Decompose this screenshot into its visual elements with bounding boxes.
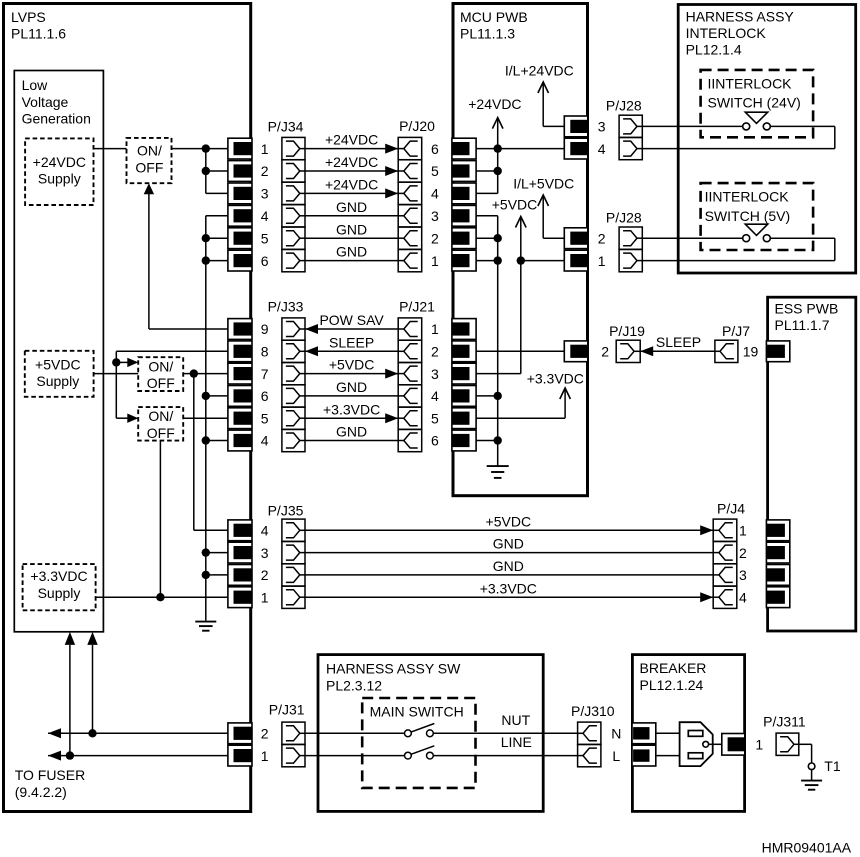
LVPS edge block P/J34 pin 3 xyxy=(228,183,252,204)
interlock switch 5V return loop to pin1 xyxy=(770,237,835,239)
svg-text:PL12.1.4: PL12.1.4 xyxy=(686,42,742,58)
ESS edge block P/J4 pin 3 xyxy=(766,565,789,586)
main switch contacts LINE xyxy=(405,752,412,759)
P/J20 connector cell pin 3 xyxy=(398,205,422,227)
LINE wire main switch to P/J310 xyxy=(433,755,577,757)
svg-text:GND: GND xyxy=(336,244,367,260)
P/J21 connector cell pin 4 xyxy=(398,385,422,407)
svg-text:ESS PWB: ESS PWB xyxy=(775,300,839,316)
svg-text:MCU PWB: MCU PWB xyxy=(460,9,528,25)
LVPS edge block P/J34 pin 4 xyxy=(228,205,252,226)
svg-text:1: 1 xyxy=(261,141,269,157)
T1 ground symbol xyxy=(801,780,822,782)
P/J7 connector cell pin 19 xyxy=(715,340,738,362)
svg-text:Low: Low xyxy=(22,77,49,93)
ESS PWB board box PL11.1.7 xyxy=(768,297,856,631)
svg-text:I/L+24VDC: I/L+24VDC xyxy=(505,62,574,78)
P/J33 connector cell pin 8 xyxy=(282,340,305,362)
wire breaker block N to plug xyxy=(656,732,680,734)
svg-text:6: 6 xyxy=(431,141,439,157)
svg-text:Supply: Supply xyxy=(38,171,81,187)
svg-text:TO FUSER: TO FUSER xyxy=(15,767,86,783)
+5VDC branch down to P/J35 pin4 xyxy=(193,374,195,531)
wire P/J311 to T1 xyxy=(799,743,812,745)
svg-text:4: 4 xyxy=(261,208,269,224)
P/J20 connector cell pin 1 xyxy=(398,250,422,272)
wire P/J33 to P/J21 row 1 (POW SAV) xyxy=(305,328,398,330)
svg-text:Generation: Generation xyxy=(22,111,91,127)
svg-text:1: 1 xyxy=(261,748,269,764)
vertical return to Low Voltage Generation (row 1) xyxy=(69,645,71,756)
svg-text:P/J31: P/J31 xyxy=(269,702,305,718)
svg-text:5: 5 xyxy=(261,230,269,246)
P/J28 (24V) connector cell pin 4 xyxy=(619,137,642,159)
svg-text:P/J21: P/J21 xyxy=(399,298,435,314)
LVPS edge block P/J34 pin 2 xyxy=(228,161,252,182)
svg-text:+5VDC: +5VDC xyxy=(492,197,538,213)
MCU edge block P/J19 pin 2 xyxy=(564,341,588,362)
LVPS edge block P/J33 pin 5 xyxy=(228,408,252,429)
junction dots on +24VDC bus xyxy=(202,144,210,152)
wire P/J35 to P/J4 row 4 (+3.3VDC) xyxy=(305,596,713,598)
MCU PWB label xyxy=(460,9,528,42)
MCU edge block P/J28 pin 3 (24V) xyxy=(564,116,588,137)
GND bus vertical in MCU xyxy=(476,215,498,217)
P/J4 connector cell pin 1 xyxy=(713,519,737,541)
P/J28 (5V) connector cell pin 1 xyxy=(619,250,642,272)
I/L+24VDC rail arrow xyxy=(538,82,549,93)
P/J28 (5V) connector cell pin 2 xyxy=(619,227,642,249)
svg-text:+3.3VDC: +3.3VDC xyxy=(480,580,537,596)
SLEEP arrow into P/J19 xyxy=(640,346,653,356)
svg-text:1: 1 xyxy=(431,253,439,269)
BREAKER box PL12.1.24 xyxy=(632,655,744,812)
P/J33 connector cell pin 5 xyxy=(282,407,305,429)
wire P/J35 to P/J4 row 3 (GND) xyxy=(305,574,713,576)
svg-text:P/J19: P/J19 xyxy=(609,323,645,339)
svg-text:BREAKER: BREAKER xyxy=(640,660,707,676)
HARNESS ASSY INTERLOCK box PL12.1.4 xyxy=(678,5,856,274)
LVPS edge block P/J33 pin 9 xyxy=(228,319,252,340)
svg-text:+24VDC: +24VDC xyxy=(325,154,378,170)
wire P/J28 pin2 to interlock switch 5V xyxy=(642,237,743,239)
P/J20 connector cell pin 6 xyxy=(398,137,422,159)
svg-text:4: 4 xyxy=(739,589,747,605)
wire P/J34 to P/J20 row 3 (+24VDC) xyxy=(305,192,398,194)
junction dots GND bus MCU xyxy=(494,234,502,242)
MAIN SWITCH dashed box xyxy=(362,698,475,788)
svg-text:2: 2 xyxy=(598,230,606,246)
svg-text:ON/: ON/ xyxy=(137,142,162,158)
svg-text:NUT: NUT xyxy=(501,712,530,728)
wire P/J28 pin3 to interlock switch 24V xyxy=(642,125,743,127)
P/J35 connector cell pin 1 xyxy=(282,586,305,608)
MCU edge block P/J20 pin 5 xyxy=(452,161,476,182)
MCU edge block P/J21 pin 5 xyxy=(452,408,476,429)
junction dot +5VDC to interlock feed xyxy=(517,256,525,264)
junction dot +5VDC branch xyxy=(190,369,198,377)
svg-text:1: 1 xyxy=(739,523,747,539)
ON/OFF switch box (+24VDC) xyxy=(127,138,172,183)
svg-text:OFF: OFF xyxy=(147,375,175,391)
MCU edge block P/J21 pin 6 xyxy=(452,430,476,451)
Low Voltage Generation inner box xyxy=(14,71,103,632)
svg-text:P/J20: P/J20 xyxy=(399,118,435,134)
svg-text:IINTERLOCK: IINTERLOCK xyxy=(708,75,793,91)
P/J21 connector cell pin 2 xyxy=(398,340,422,362)
svg-text:P/J310: P/J310 xyxy=(571,703,615,719)
+5VDC wire from P/J21 pin3 xyxy=(476,373,521,375)
SLEEP wire P/J7 to P/J19 xyxy=(640,350,715,352)
svg-text:+5VDC: +5VDC xyxy=(486,513,532,529)
MCU edge block P/J21 pin 4 xyxy=(452,386,476,407)
svg-text:LVPS: LVPS xyxy=(11,9,46,25)
MCU edge block P/J21 pin 1 xyxy=(452,319,476,340)
+5VDC Supply dashed box xyxy=(25,351,94,397)
+24VDC vertical bus in LVPS xyxy=(205,149,207,194)
+3.3VDC vertical up into ON/OFF xyxy=(159,441,161,597)
P/J35 connector cell pin 3 xyxy=(282,542,305,564)
P/J35 connector cell pin 4 xyxy=(282,519,305,541)
vertical return to Low Voltage Generation (row 2) xyxy=(92,645,94,733)
svg-text:3: 3 xyxy=(261,186,269,202)
svg-text:HMR09401AA: HMR09401AA xyxy=(762,839,852,855)
svg-text:T1: T1 xyxy=(824,758,841,774)
svg-text:GND: GND xyxy=(336,221,367,237)
GND bus vertical in LVPS xyxy=(206,215,229,217)
svg-text:PL11.1.6: PL11.1.6 xyxy=(11,26,66,42)
P/J34 connector cell pin 2 xyxy=(282,160,305,182)
P/J4 connector cell pin 4 xyxy=(713,586,737,608)
P/J4 connector cell pin 2 xyxy=(713,542,737,564)
interlock switch 24V return loop to pin4 xyxy=(770,125,835,127)
LVPS edge block P/J33 pin 8 xyxy=(228,341,252,362)
MCU edge block P/J20 pin 2 xyxy=(452,228,476,249)
wire P/J35 to P/J4 row 2 (GND) xyxy=(305,552,713,554)
svg-text:6: 6 xyxy=(261,388,269,404)
Low Voltage Generation label xyxy=(22,77,91,127)
wire P/J34 to P/J20 row 5 (GND) xyxy=(305,237,398,239)
svg-text:+24VDC: +24VDC xyxy=(325,177,378,193)
LVPS edge block P/J35 pin 2 xyxy=(228,565,252,586)
LVPS edge block P/J35 pin 1 xyxy=(228,587,252,608)
svg-text:1: 1 xyxy=(598,253,606,269)
wire +5VDC feed to P/J28 pin1 xyxy=(521,260,565,262)
wire P/J34 to P/J20 row 6 (GND) xyxy=(305,260,398,262)
svg-text:GND: GND xyxy=(493,536,524,552)
svg-text:2: 2 xyxy=(261,726,269,742)
svg-text:OFF: OFF xyxy=(135,160,163,176)
P/J34 connector cell pin 6 xyxy=(282,250,305,272)
+3.3VDC Supply dashed box xyxy=(23,564,96,610)
svg-text:SWITCH (24V): SWITCH (24V) xyxy=(708,95,801,111)
svg-text:(9.4.2.2): (9.4.2.2) xyxy=(15,784,67,800)
svg-text:P/J7: P/J7 xyxy=(722,323,750,339)
MCU edge block P/J28 pin 4 (24V) xyxy=(564,138,588,159)
svg-text:Supply: Supply xyxy=(38,585,81,601)
ESS edge block P/J4 pin 2 xyxy=(766,542,789,563)
+3.3VDC rail arrow xyxy=(560,388,571,399)
P/J21 connector cell pin 1 xyxy=(398,318,422,340)
svg-text:2: 2 xyxy=(739,545,747,561)
svg-text:+24VDC: +24VDC xyxy=(33,154,86,170)
MCU PWB board box PL11.1.3 xyxy=(453,4,588,496)
P/J31 connector cell pin 2 xyxy=(282,722,305,744)
interlock switch symbol 24V xyxy=(745,112,767,123)
svg-text:L: L xyxy=(612,748,620,764)
svg-text:1: 1 xyxy=(755,737,763,753)
svg-text:1: 1 xyxy=(431,321,439,337)
junction dots +24VDC bus MCU xyxy=(494,144,502,152)
svg-text:6: 6 xyxy=(261,253,269,269)
I/L+24VDC wire from P/J28 pin3 xyxy=(543,125,565,127)
LVPS edge block P/J31 pin 1 xyxy=(228,745,252,766)
P/J20 connector cell pin 2 xyxy=(398,227,422,249)
svg-text:1: 1 xyxy=(261,589,269,605)
P/J34 connector cell pin 4 xyxy=(282,205,305,227)
svg-text:GND: GND xyxy=(336,424,367,440)
wire P/J33 to P/J21 row 3 (+5VDC) xyxy=(305,373,398,375)
MCU edge block P/J28 pin 2 (5V) xyxy=(564,228,588,249)
svg-text:ON/: ON/ xyxy=(148,408,173,424)
ESS edge block P/J7 pin 19 xyxy=(766,341,789,362)
breaker right edge block pin 1 xyxy=(722,734,745,756)
svg-text:4: 4 xyxy=(261,523,269,539)
wire +24VDC supply output to ON/OFF xyxy=(94,148,127,150)
svg-text:6: 6 xyxy=(431,433,439,449)
wire P/J34 to P/J20 row 2 (+24VDC) xyxy=(305,170,398,172)
I/L+5VDC wire from P/J28 pin2 xyxy=(543,237,565,239)
svg-text:5: 5 xyxy=(431,163,439,179)
P/J34 connector cell pin 3 xyxy=(282,182,305,204)
P/J310 connector cell N xyxy=(578,722,601,744)
junction dot +3.3VDC xyxy=(156,593,164,601)
NUT wire main switch to P/J310 xyxy=(433,732,577,734)
SLEEP arrow into ON/OFF (+5VDC) xyxy=(116,361,127,363)
svg-text:2: 2 xyxy=(431,230,439,246)
INTERLOCK SWITCH (24V) label xyxy=(708,75,801,110)
svg-text:POW SAV: POW SAV xyxy=(319,312,384,328)
P/J34 connector cell pin 1 xyxy=(282,137,305,159)
TO FUSER left arrow row 2 xyxy=(48,728,61,738)
T1 terminal circle xyxy=(808,763,815,770)
BREAKER label xyxy=(640,660,707,693)
main switch contacts NUT xyxy=(405,730,412,737)
svg-text:GND: GND xyxy=(493,558,524,574)
wire P/J34 to P/J20 row 1 (+24VDC) xyxy=(305,148,398,150)
svg-text:P/J28: P/J28 xyxy=(606,209,642,225)
svg-text:IINTERLOCK: IINTERLOCK xyxy=(705,189,790,205)
+5VDC rail arrow xyxy=(516,217,527,228)
svg-text:LINE: LINE xyxy=(501,734,532,750)
MCU edge block P/J20 pin 1 xyxy=(452,250,476,271)
SLEEP wire from P/J33 pin8 xyxy=(116,350,228,352)
ESS edge block P/J4 pin 4 xyxy=(766,587,789,608)
P/J310 connector cell L xyxy=(578,745,601,767)
svg-text:+5VDC: +5VDC xyxy=(329,357,375,373)
GND branches in MCU xyxy=(476,237,498,239)
P/J33 connector cell pin 4 xyxy=(282,429,305,451)
junction dots on GND bus xyxy=(202,234,210,242)
LVPS edge block P/J35 pin 4 xyxy=(228,520,252,541)
TO FUSER left arrow row 1 xyxy=(48,751,61,761)
P/J4 connector cell pin 3 xyxy=(713,564,737,586)
MCU edge block P/J20 pin 6 xyxy=(452,138,476,159)
wire ON/OFF output to P/J34 pin1 block xyxy=(172,148,229,150)
P/J21 connector cell pin 5 xyxy=(398,407,422,429)
INTERLOCK SWITCH (5V) label xyxy=(705,189,791,224)
wire P/J33 to P/J21 row 5 (+3.3VDC) xyxy=(305,417,398,419)
P/J19 connector cell pin 2 xyxy=(616,340,640,362)
svg-text:MAIN SWITCH: MAIN SWITCH xyxy=(370,704,464,720)
LVPS edge block P/J35 pin 3 xyxy=(228,542,252,563)
HARNESS ASSY INTERLOCK label xyxy=(686,9,795,58)
svg-text:+24VDC: +24VDC xyxy=(325,132,378,148)
POW SAV wire from P/J33 pin9 to ON/OFF control xyxy=(149,328,229,330)
wire +5VDC supply output through ON/OFF to P/J33 pin7 xyxy=(94,373,229,375)
P/J20 connector cell pin 5 xyxy=(398,160,422,182)
svg-text:3: 3 xyxy=(598,119,606,135)
svg-text:2: 2 xyxy=(601,344,609,360)
svg-text:3: 3 xyxy=(431,208,439,224)
svg-text:HARNESS ASSY: HARNESS ASSY xyxy=(686,9,795,25)
svg-text:INTERLOCK: INTERLOCK xyxy=(686,25,767,41)
INTERLOCK SWITCH (5V) dashed box xyxy=(701,183,814,250)
P/J35 connector cell pin 2 xyxy=(282,564,305,586)
MCU edge block P/J21 pin 3 xyxy=(452,363,476,384)
up arrow into Low Voltage Generation box (row 1) xyxy=(65,632,75,645)
svg-text:7: 7 xyxy=(261,366,269,382)
ON/OFF switch box (+3.3VDC) xyxy=(138,407,183,441)
LVPS edge block P/J34 pin 5 xyxy=(228,228,252,249)
NUT wire P/J31 pin2 to main switch xyxy=(305,732,405,734)
wire P/J35 to P/J4 row 1 (+5VDC) xyxy=(305,529,713,531)
wire P/J33 to P/J21 row 6 (GND) xyxy=(305,440,398,442)
svg-text:P/J34: P/J34 xyxy=(268,119,304,135)
wire P/J34 to P/J20 row 4 (GND) xyxy=(305,215,398,217)
svg-text:PL2.3.12: PL2.3.12 xyxy=(326,678,382,694)
junction dot fuser row 1 xyxy=(66,751,74,759)
+24VDC rail arrow xyxy=(492,118,503,129)
svg-text:9: 9 xyxy=(261,321,269,337)
svg-text:4: 4 xyxy=(431,186,439,202)
wire P/J33 to P/J21 row 4 (GND) xyxy=(305,395,398,397)
ESS edge block P/J4 pin 1 xyxy=(766,520,789,541)
+24VDC Supply dashed box xyxy=(25,138,93,205)
LVPS ground symbol xyxy=(195,621,216,623)
GND bus branches to blocks xyxy=(206,237,229,239)
svg-text:Voltage: Voltage xyxy=(22,94,69,110)
svg-text:P/J4: P/J4 xyxy=(717,501,745,517)
LVPS label xyxy=(11,9,66,42)
P/J311 connector cell pin 1 xyxy=(776,733,799,755)
svg-text:2: 2 xyxy=(261,567,269,583)
ON/OFF switch box (+5VDC) xyxy=(138,357,183,391)
svg-text:3: 3 xyxy=(431,366,439,382)
TO FUSER wire row 1 xyxy=(48,755,229,757)
svg-text:HARNESS ASSY SW: HARNESS ASSY SW xyxy=(326,661,461,677)
svg-text:+24VDC: +24VDC xyxy=(468,96,521,112)
svg-text:2: 2 xyxy=(261,163,269,179)
MCU edge block P/J20 pin 3 xyxy=(452,205,476,226)
svg-text:P/J311: P/J311 xyxy=(763,713,806,729)
wire +3.3VDC supply output to P/J35 pin1 xyxy=(96,596,229,598)
LVPS edge block P/J33 pin 7 xyxy=(228,363,252,384)
P/J20 connector cell pin 4 xyxy=(398,182,422,204)
MCU edge block P/J20 pin 4 xyxy=(452,183,476,204)
svg-text:PL11.1.3: PL11.1.3 xyxy=(460,26,515,42)
svg-text:SLEEP: SLEEP xyxy=(329,334,374,350)
svg-text:4: 4 xyxy=(261,433,269,449)
svg-text:4: 4 xyxy=(431,388,439,404)
SLEEP junction dot xyxy=(112,358,120,366)
LVPS board box PL11.1.6 xyxy=(4,4,251,812)
svg-text:19: 19 xyxy=(743,344,759,360)
svg-text:+3.3VDC: +3.3VDC xyxy=(527,371,584,387)
P/J33 connector cell pin 6 xyxy=(282,385,305,407)
wire ON/OFF output to P/J33 pin5 (+3.3VDC) xyxy=(184,417,229,419)
svg-text:SLEEP: SLEEP xyxy=(656,334,701,350)
svg-text:OFF: OFF xyxy=(147,425,175,441)
svg-text:2: 2 xyxy=(431,344,439,360)
LVPS edge block P/J33 pin 4 xyxy=(228,430,252,451)
P/J21 connector cell pin 3 xyxy=(398,363,422,385)
LVPS edge block P/J34 pin 6 xyxy=(228,250,252,271)
MCU ground symbol xyxy=(487,465,509,467)
I/L+5VDC rail arrow xyxy=(538,195,549,206)
svg-text:PL11.1.7: PL11.1.7 xyxy=(775,317,830,333)
+24VDC vertical bus in MCU xyxy=(497,119,499,193)
svg-text:GND: GND xyxy=(336,379,367,395)
svg-text:P/J35: P/J35 xyxy=(268,503,304,519)
svg-text:+3.3VDC: +3.3VDC xyxy=(323,401,380,417)
svg-text:P/J28: P/J28 xyxy=(606,98,642,114)
wire P/J20 pin6 to P/J28 pin4 (+24VDC) xyxy=(476,148,565,150)
P/J31 connector cell pin 1 xyxy=(282,745,305,767)
svg-text:5: 5 xyxy=(261,410,269,426)
TO FUSER wire row 2 xyxy=(48,732,229,734)
svg-text:3: 3 xyxy=(739,567,747,583)
svg-text:N: N xyxy=(611,726,621,742)
svg-text:PL12.1.24: PL12.1.24 xyxy=(640,677,704,693)
P/J34 connector cell pin 5 xyxy=(282,227,305,249)
svg-text:8: 8 xyxy=(261,344,269,360)
wire P/J33 to P/J21 row 2 (SLEEP) xyxy=(305,350,398,352)
breaker edge block N xyxy=(632,723,656,744)
LVPS edge block P/J33 pin 6 xyxy=(228,386,252,407)
breaker edge block L xyxy=(632,745,656,766)
TO FUSER label xyxy=(15,767,86,800)
svg-text:3: 3 xyxy=(261,545,269,561)
LVPS edge block P/J31 pin 2 xyxy=(228,723,252,744)
SLEEP arrow into ON/OFF (+3.3VDC) xyxy=(116,417,127,419)
wire breaker block L to plug xyxy=(656,755,680,757)
INTERLOCK SWITCH (24V) dashed box xyxy=(701,70,814,137)
P/J21 connector cell pin 6 xyxy=(398,429,422,451)
interlock switch symbol 5V xyxy=(745,224,767,235)
svg-text:Supply: Supply xyxy=(36,373,79,389)
ESS PWB label xyxy=(775,300,839,333)
POW SAV up arrow into ON/OFF xyxy=(144,183,154,194)
junction dot fuser row 2 xyxy=(88,729,96,737)
SLEEP wire P/J21 pin2 to P/J19 pin2 xyxy=(476,350,565,352)
svg-text:GND: GND xyxy=(336,199,367,215)
MCU edge block P/J21 pin 2 xyxy=(452,341,476,362)
MCU edge block P/J28 pin 1 (5V) xyxy=(564,250,588,271)
HARNESS ASSY SW box PL2.3.12 xyxy=(318,655,543,812)
HARNESS ASSY SW label xyxy=(326,661,461,694)
wire plug to breaker right edge block xyxy=(709,743,722,745)
